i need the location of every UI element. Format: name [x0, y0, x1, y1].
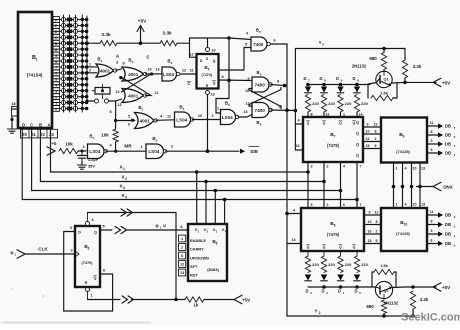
resistor 220 top col 3	[338, 95, 352, 113]
svg-text:2: 2	[326, 291, 328, 295]
svg-text:10: 10	[245, 89, 249, 93]
svg-text:D: D	[303, 76, 306, 81]
svg-text:C: C	[55, 35, 58, 40]
wire B10 output DB2	[427, 220, 456, 229]
svg-text:B: B	[55, 41, 58, 46]
svg-text:4: 4	[293, 209, 296, 213]
svg-text:φ: φ	[155, 223, 158, 228]
B1 bottom pin labels D C B A	[22, 123, 51, 128]
inverter B5b (LS04)	[146, 136, 173, 159]
wire 220 to B7 pin 11	[324, 112, 329, 117]
FF internal labels	[75, 231, 97, 286]
svg-text:15: 15	[366, 144, 370, 148]
wire matrix bus to switch	[86, 100, 95, 103]
FF Q output wire	[100, 225, 112, 231]
svg-text:7: 7	[360, 165, 362, 169]
svg-text:A: A	[116, 54, 120, 59]
svg-text:220: 220	[345, 101, 352, 106]
svg-text:8: 8	[122, 62, 124, 66]
NOR gate B2a (4001)	[96, 57, 117, 78]
svg-text:Q: Q	[339, 245, 342, 249]
svg-text:220: 220	[328, 262, 335, 267]
FF D feedback wire	[64, 226, 113, 311]
svg-text:4: 4	[160, 115, 163, 119]
svg-text:(7475): (7475)	[327, 232, 340, 237]
svg-text:D: D	[321, 289, 324, 294]
svg-text:6: 6	[128, 123, 130, 127]
svg-text:13: 13	[291, 238, 295, 242]
+5 input arrow	[47, 141, 57, 155]
wire B9 pin 10 to B10	[410, 163, 417, 209]
label X1	[119, 165, 125, 172]
svg-text:CLK: CLK	[38, 247, 48, 252]
svg-text:680: 680	[369, 56, 377, 61]
svg-text:+5V: +5V	[138, 19, 147, 25]
wire pin21 C to X3 bus	[32, 128, 341, 191]
svg-text:B: B	[39, 123, 42, 128]
diode rail junction dots	[306, 83, 359, 87]
svg-text:Q: Q	[323, 121, 326, 125]
svg-text:680: 680	[366, 304, 374, 309]
+5V arrow bottom middle	[204, 295, 251, 303]
svg-text:9: 9	[367, 122, 369, 126]
chevrons on bottom line	[122, 296, 134, 303]
svg-text:0: 0	[359, 291, 361, 295]
svg-text:2: 2	[101, 59, 103, 63]
svg-text:0: 0	[55, 106, 57, 111]
wire SB line with arrow	[166, 147, 260, 155]
resistor 220 top col 4	[354, 95, 368, 113]
matrix output bus vertical	[86, 16, 88, 101]
svg-text:Q: Q	[94, 231, 97, 235]
svg-text:8: 8	[180, 224, 183, 229]
IC B6 (8284) counter box	[188, 224, 227, 281]
resistor 1k	[185, 297, 204, 308]
svg-text:+5V: +5V	[442, 285, 451, 290]
svg-text:1: 1	[454, 234, 456, 238]
B4 internal labels	[200, 57, 216, 88]
label C-bar at B4	[187, 81, 191, 86]
resistor 220 top col 2	[321, 95, 335, 113]
counter left pin boxes	[179, 235, 186, 276]
svg-text:(7475): (7475)	[327, 143, 340, 148]
svg-text:2: 2	[376, 230, 378, 234]
svg-text:3: 3	[132, 60, 134, 64]
svg-text:13: 13	[155, 68, 159, 72]
wire B4 Qbar pin 8 to NAND B6a pin 9	[219, 75, 253, 82]
diode D3 bottom	[305, 275, 312, 296]
pushbutton S1	[92, 85, 110, 99]
svg-text:11: 11	[430, 121, 434, 125]
svg-text:1: 1	[395, 202, 397, 206]
svg-text:6: 6	[343, 203, 345, 207]
wire 220 to B7 pin 14	[357, 112, 363, 117]
svg-text:2: 2	[89, 68, 91, 72]
chevrons on preset line	[121, 209, 133, 216]
svg-text:9: 9	[248, 77, 250, 81]
svg-text:6: 6	[431, 148, 433, 152]
svg-text:6: 6	[431, 239, 433, 243]
svg-text:1: 1	[181, 237, 183, 241]
svg-text:8: 8	[324, 79, 326, 83]
wire B7 Q1 to B9 pin	[363, 129, 381, 134]
svg-text:9: 9	[369, 211, 371, 215]
svg-text:D: D	[352, 76, 355, 81]
svg-text:1: 1	[160, 226, 162, 230]
svg-text:φ: φ	[10, 250, 13, 255]
svg-text:S/B: S/B	[250, 149, 258, 154]
svg-text:13: 13	[244, 110, 248, 114]
label 2N1132 bottom	[384, 301, 399, 306]
label X4	[121, 193, 127, 200]
wire B7 Q3 to B9 pin	[363, 144, 381, 149]
wire matrix bus to B2a inputs 1 2	[86, 62, 98, 74]
svg-text:A: A	[55, 47, 58, 52]
svg-text:220: 220	[328, 101, 335, 106]
wire B3a output to B4 D input	[180, 68, 196, 74]
svg-text:15: 15	[368, 239, 372, 243]
svg-text:5: 5	[454, 144, 456, 148]
wire pin23 A to X1 bus	[51, 128, 309, 172]
IC B8 (7475) latch box	[301, 208, 364, 251]
svg-text:16: 16	[368, 230, 372, 234]
resistor 220 bottom col 1	[305, 251, 319, 273]
chevrons on Q line	[115, 226, 127, 233]
svg-text:2: 2	[211, 114, 213, 118]
svg-text:1: 1	[36, 58, 38, 62]
transistor Q1 2N1132	[376, 70, 392, 88]
resistor 3.3k bottom right	[410, 291, 428, 316]
svg-text:12: 12	[189, 53, 193, 57]
svg-text:6: 6	[273, 39, 275, 43]
svg-text:2: 2	[375, 137, 377, 141]
phi/2 line from FF Q to pin 8	[127, 223, 189, 230]
svg-text:4: 4	[125, 196, 127, 200]
svg-text:6: 6	[454, 135, 456, 139]
svg-text:4001: 4001	[128, 72, 139, 77]
svg-text:SeekIC.com: SeekIC.com	[401, 312, 460, 324]
counter output labels O1-O4	[195, 228, 227, 234]
wire B7 pin to B8 pin col 2	[322, 162, 328, 208]
svg-text:7400: 7400	[255, 82, 266, 87]
resistor 220 bottom col 3	[338, 251, 352, 273]
wire B5c input 1 from node	[216, 99, 229, 114]
B7 internal Q-bar top labels	[307, 121, 356, 126]
svg-text:11: 11	[189, 68, 193, 72]
svg-text:8: 8	[334, 224, 336, 228]
svg-text:Y: Y	[318, 40, 321, 45]
svg-text:4: 4	[454, 153, 456, 157]
wire B4 Q to 7400 pin 5	[219, 43, 252, 70]
wire Q2 emitter to +5V	[392, 283, 452, 291]
cross coupling of 7400 latch	[249, 88, 281, 109]
NOR gate B2d (4001)	[135, 105, 158, 129]
svg-text:4: 4	[208, 68, 210, 72]
svg-text:8: 8	[431, 130, 433, 134]
wire resistor to +5V node	[117, 42, 160, 44]
svg-text:D: D	[78, 231, 81, 235]
svg-text:Q: Q	[307, 121, 310, 125]
svg-text:1.5k: 1.5k	[380, 91, 389, 96]
wire 220 to B7 pin 8	[308, 112, 313, 117]
svg-text:2: 2	[327, 165, 329, 169]
svg-text:5: 5	[128, 115, 130, 119]
svg-text:D: D	[55, 29, 58, 34]
label X3	[119, 184, 125, 191]
B4 clear bubble pin 13	[206, 91, 215, 97]
svg-text:1: 1	[15, 253, 17, 257]
Y1 rail	[295, 40, 405, 110]
SeekIC watermark	[401, 312, 460, 324]
base resistor 1.5k loop Q2	[372, 263, 396, 287]
svg-text:220: 220	[345, 262, 352, 267]
wire B8 Q0 to B10 pin	[364, 211, 381, 216]
svg-text:LS04: LS04	[222, 115, 233, 120]
wire B9 pin 4 to B10	[401, 163, 408, 209]
wire Y1 to B7 enable pins 4 13	[295, 110, 303, 150]
+5V supply arrow top	[137, 19, 147, 46]
diode rail Y1 side	[307, 84, 371, 86]
svg-text:7400: 7400	[255, 108, 266, 113]
label X2	[121, 175, 127, 182]
svg-text:(74125): (74125)	[396, 149, 410, 154]
resistor 3.3k top right	[402, 49, 421, 83]
svg-text:Q1: Q1	[383, 78, 388, 82]
wire MR line	[106, 144, 147, 152]
svg-text:220: 220	[312, 262, 319, 267]
svg-text:DB: DB	[445, 213, 451, 218]
svg-text:D: D	[200, 59, 203, 63]
svg-text:3: 3	[310, 291, 312, 295]
svg-text:2: 2	[207, 230, 209, 234]
svg-text:8: 8	[109, 110, 111, 114]
svg-text:8: 8	[277, 80, 279, 84]
wire B8 Q1 to B10 pin	[364, 220, 381, 225]
diode D2 bottom	[321, 275, 328, 296]
svg-text:CARRY: CARRY	[190, 247, 204, 252]
B8 internal Q-bar bottom labels	[307, 245, 356, 250]
svg-text:3.3k: 3.3k	[101, 32, 111, 38]
svg-text:10: 10	[412, 202, 416, 206]
svg-text:3: 3	[123, 186, 125, 190]
svg-text:35V: 35V	[88, 164, 95, 169]
svg-text:DB: DB	[445, 124, 451, 129]
transistor Q2 2N1132	[375, 281, 392, 299]
svg-text:3: 3	[116, 61, 118, 65]
wire B9 pin 13 to B10	[418, 163, 425, 209]
diode D1 bottom	[337, 275, 344, 296]
svg-text:13: 13	[180, 271, 184, 275]
resistor 220 top col 1	[305, 95, 319, 113]
diode D7 top	[303, 76, 311, 93]
svg-text:20: 20	[22, 132, 27, 137]
svg-text:4001: 4001	[128, 93, 139, 98]
wire B6a output 8	[271, 80, 287, 88]
IC B9 (74125) buffer box	[381, 118, 427, 163]
svg-text:3: 3	[454, 215, 456, 219]
svg-text:9: 9	[341, 79, 343, 83]
svg-text:10k: 10k	[65, 142, 73, 147]
IC B7 (7475) latch box	[303, 117, 363, 162]
counter pin name labels	[190, 238, 209, 278]
svg-text:7: 7	[308, 79, 310, 83]
svg-text:1: 1	[217, 107, 219, 111]
svg-text:4: 4	[91, 218, 94, 222]
inverter B3a (LS04)	[162, 59, 180, 82]
svg-text:7: 7	[454, 126, 456, 130]
svg-text:4: 4	[109, 144, 112, 148]
diode D8 top	[319, 76, 327, 93]
svg-text:3: 3	[431, 139, 433, 143]
svg-text:5: 5	[156, 139, 158, 143]
svg-text:DB: DB	[445, 232, 451, 237]
svg-text:13: 13	[295, 144, 299, 148]
DNX line and arrow	[417, 182, 453, 190]
wire to LS04 B5a input	[78, 145, 86, 153]
svg-text:3: 3	[183, 107, 185, 111]
svg-text:Q2: Q2	[383, 289, 388, 293]
NAND gate B6a (7400)	[245, 70, 272, 93]
wire pin22 B to X2 bus	[40, 128, 324, 182]
wire 7400 output 6 down right bus	[270, 39, 287, 317]
svg-text:LS04: LS04	[176, 117, 187, 122]
NOR gate B2b (4001)	[122, 58, 147, 82]
svg-text:(7474): (7474)	[202, 73, 213, 77]
svg-text:9: 9	[124, 79, 126, 83]
wire B8 pin 13 to Y2	[287, 238, 301, 244]
svg-text:2N1132: 2N1132	[352, 64, 367, 69]
ground at B1 pin 18	[8, 116, 17, 133]
svg-text:0: 0	[454, 244, 456, 248]
svg-text:Q: Q	[356, 120, 359, 125]
wire B10 output DB3	[427, 210, 456, 219]
svg-text:8: 8	[221, 75, 223, 79]
svg-text:D: D	[336, 76, 339, 81]
svg-text:3: 3	[311, 203, 313, 207]
svg-text:12: 12	[180, 263, 184, 267]
svg-text:2: 2	[454, 225, 456, 229]
svg-text:LS04: LS04	[89, 149, 100, 154]
wire B5c output to NAND B6b pin 13	[238, 115, 252, 118]
svg-text:1: 1	[198, 230, 200, 234]
svg-text:13: 13	[117, 103, 121, 107]
wire X1 to counter O1	[195, 170, 199, 224]
inverter B3b (LS04)	[175, 105, 194, 128]
svg-text:18: 18	[11, 102, 15, 106]
wire X2 to counter O2	[204, 180, 208, 224]
label 2N1132 top	[352, 64, 367, 69]
svg-text:Y: Y	[314, 309, 317, 314]
svg-text:6: 6	[103, 269, 105, 273]
wire 10k to MR line	[114, 142, 117, 153]
wire B7 pin to B8 pin col 3	[339, 162, 345, 208]
svg-text:1k: 1k	[194, 303, 199, 308]
B1 bottom pin numbers 20 21 22 23	[21, 129, 58, 138]
svg-text:10: 10	[404, 223, 408, 227]
svg-text:Q: Q	[307, 245, 310, 249]
svg-text:12: 12	[182, 68, 186, 72]
wire B10 output DB0	[427, 239, 456, 248]
wire B7 pin to B8 pin col 4	[355, 162, 361, 208]
svg-text:MR: MR	[124, 144, 132, 149]
svg-text:5: 5	[259, 30, 261, 34]
svg-text:Q: Q	[339, 121, 342, 125]
wire B8 enable pin 4 from bus	[285, 209, 301, 216]
IC B4 (7474) flip-flop box	[197, 54, 219, 89]
svg-text:11: 11	[278, 105, 282, 109]
svg-text:4: 4	[297, 119, 300, 123]
svg-text:10: 10	[147, 68, 151, 72]
wire pin20 D to X4 bus	[22, 128, 357, 200]
svg-text:6: 6	[181, 254, 183, 258]
svg-text:+5: +5	[51, 141, 57, 146]
IC B6 (7476) flip-flop box	[75, 226, 100, 287]
wire X3 to counter O3	[214, 189, 218, 224]
wire B7 Q2 to B9 pin	[363, 137, 381, 142]
NAND gate B6b (7400)	[244, 102, 273, 127]
svg-text:5: 5	[102, 225, 104, 229]
svg-text:8: 8	[375, 129, 377, 133]
svg-text:4001: 4001	[100, 68, 111, 73]
bottom pullup line	[132, 298, 186, 302]
resistor 220 bottom col 2	[321, 251, 335, 273]
diode rail Y2 side	[308, 286, 376, 288]
svg-text:6: 6	[260, 73, 262, 77]
resistor 10k MR	[59, 142, 78, 154]
wire 220 to B7 pin 1	[341, 112, 346, 117]
svg-text:2: 2	[181, 246, 183, 250]
resistor 680 top	[369, 47, 386, 72]
svg-text:D: D	[319, 76, 322, 81]
svg-text:3.3k: 3.3k	[413, 64, 422, 69]
diode D9 top	[336, 76, 344, 93]
svg-text:E: E	[55, 23, 58, 28]
Y2 rail	[287, 309, 415, 318]
svg-text:2: 2	[142, 108, 144, 112]
wire B9 output DB5	[427, 139, 456, 148]
wire B2b output to LS04 B3a	[147, 68, 162, 75]
wire B2d output to LS04 B3b	[156, 115, 175, 121]
svg-text:Q: Q	[213, 59, 216, 63]
svg-text:3.3k: 3.3k	[162, 31, 172, 37]
svg-text:LS04: LS04	[148, 149, 159, 154]
wire node to NAND B5a pin 4	[229, 32, 251, 99]
wire clear to pullup line	[88, 299, 121, 301]
wire B8 Q2 to B10 pin	[364, 230, 381, 235]
svg-text:3: 3	[171, 61, 173, 65]
svg-text:DB: DB	[445, 241, 451, 246]
B7 internal Q right labels	[356, 120, 359, 158]
svg-text:3: 3	[83, 145, 85, 149]
wire B9 pin 1 to B10	[392, 163, 398, 209]
wire X4 to counter O4	[223, 198, 227, 224]
svg-text:1: 1	[89, 62, 91, 66]
svg-text:Q: Q	[323, 245, 326, 249]
svg-text:4: 4	[404, 166, 407, 170]
base resistor 1.5k loop Q1	[368, 82, 397, 100]
svg-text:2: 2	[319, 311, 321, 315]
label C	[146, 55, 150, 60]
svg-text:4: 4	[404, 202, 407, 206]
svg-text:5: 5	[376, 239, 378, 243]
svg-text:7400: 7400	[253, 42, 264, 47]
svg-text:13: 13	[210, 93, 214, 97]
svg-text:DB: DB	[445, 133, 451, 138]
wire B2a output to B2b input	[116, 61, 125, 71]
svg-text:(74125): (74125)	[396, 231, 410, 236]
svg-text:8: 8	[376, 220, 378, 224]
svg-text:D: D	[354, 289, 357, 294]
